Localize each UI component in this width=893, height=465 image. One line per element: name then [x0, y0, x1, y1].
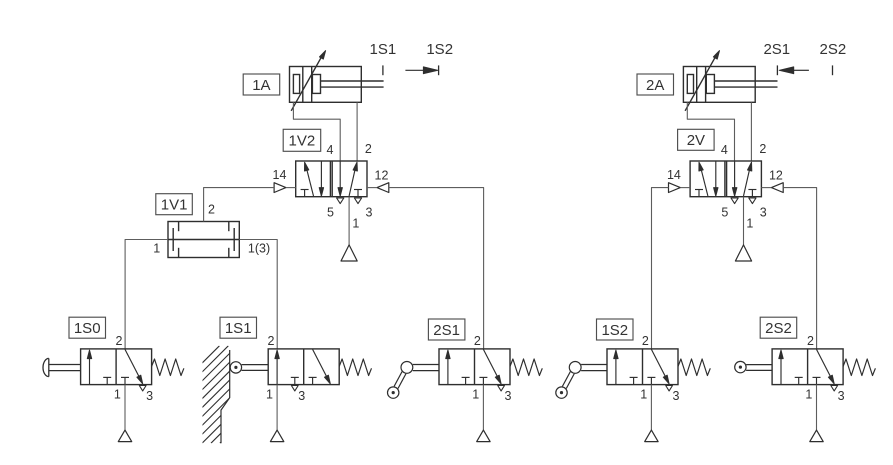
valve 1S1 (3/2): [268, 349, 339, 385]
port label 3 (1S2): [673, 389, 680, 403]
port label 2 (1V1): [208, 202, 215, 216]
roller lever actuator of 1S2: [556, 362, 607, 399]
label 1V2: [283, 129, 321, 151]
svg-text:1S2: 1S2: [601, 322, 628, 339]
pressure source at 2S2 port 1: [810, 385, 823, 442]
wire 1V1 port 2 to 1V2 pilot 14: [204, 188, 275, 222]
pilot port 14 of 1V2: [274, 183, 296, 193]
wire 1S1 port 2 to 1V1 port 1(3): [239, 240, 277, 349]
label 1S1: [220, 317, 257, 338]
port label 1 (1V2): [352, 217, 359, 231]
exhaust port 3 of 2S2: [831, 386, 838, 391]
exhaust port 3 of 1S2: [666, 386, 673, 391]
port label 3 (2S2): [838, 389, 845, 403]
return spring of 1S2: [678, 359, 710, 376]
label 2S1: [428, 319, 465, 340]
svg-text:1S0: 1S0: [74, 320, 101, 337]
roller actuator of 1S1: [230, 362, 268, 373]
pressure source at 2V port 1: [735, 197, 751, 261]
port label 2 (2S2): [807, 334, 814, 348]
svg-text:5: 5: [327, 205, 334, 219]
port label 2 (1S1): [268, 334, 275, 348]
port label 14 (2V): [667, 168, 681, 182]
wire 2A cap-end to 2V port 4: [687, 102, 734, 161]
push button actuator of 1S0: [43, 358, 81, 376]
port label 3 (1S0): [146, 389, 153, 403]
svg-text:14: 14: [273, 168, 287, 182]
svg-text:3: 3: [298, 389, 305, 403]
svg-text:14: 14: [667, 168, 681, 182]
svg-text:12: 12: [375, 168, 389, 182]
valve 2S1 (3/2): [439, 349, 510, 385]
port label 2 (2V): [759, 142, 766, 156]
valve 2S2 (3/2): [772, 349, 843, 385]
svg-text:2: 2: [208, 202, 215, 216]
port label 2 (2S1): [474, 334, 481, 348]
svg-text:1A: 1A: [252, 77, 270, 94]
svg-text:2: 2: [807, 334, 814, 348]
valve 1S2 (3/2): [607, 349, 678, 385]
pilot port 12 of 1V2: [367, 183, 389, 193]
port label 2 (1V2): [365, 142, 372, 156]
wire 1A cap-end to 1V2 port 4: [293, 102, 340, 161]
wire 2A rod-end to 2V port 2: [750, 102, 752, 161]
port label 4 (2V): [721, 143, 728, 157]
svg-text:2A: 2A: [646, 77, 664, 94]
port label 2 (1S2): [642, 334, 649, 348]
svg-text:1: 1: [805, 387, 812, 401]
two-pressure valve 1V1: [168, 222, 239, 258]
cam wall at 1S1: [122, 346, 326, 443]
svg-text:3: 3: [760, 205, 767, 219]
roller actuator of 2S2: [735, 361, 772, 372]
port label 4 (1V2): [327, 143, 334, 157]
port label 14 (1V2): [273, 168, 287, 182]
svg-text:5: 5: [721, 205, 728, 219]
port label 12 (2V): [769, 168, 783, 182]
port label 12 (1V2): [375, 168, 389, 182]
svg-text:4: 4: [327, 143, 334, 157]
label 2A: [637, 74, 674, 95]
port label 3 (2S1): [505, 389, 512, 403]
svg-text:2: 2: [474, 334, 481, 348]
svg-text:2: 2: [115, 334, 122, 348]
svg-text:2: 2: [365, 142, 372, 156]
port label 3 (1V2): [366, 205, 373, 219]
pressure source at 1V2 port 1: [341, 197, 357, 261]
exhaust port 3 of 1V2: [354, 198, 361, 204]
valve 1V2 (5/2 double pilot): [296, 161, 367, 197]
exhaust port 3 of 1S0: [139, 386, 146, 391]
svg-text:3: 3: [673, 389, 680, 403]
svg-text:1: 1: [114, 387, 121, 401]
pressure source at 2S1 port 1: [477, 385, 490, 442]
svg-text:1: 1: [352, 217, 359, 231]
port label 1 (1S1): [266, 387, 273, 401]
return spring of 1S1: [339, 359, 371, 376]
valve 2V (5/2 double pilot): [690, 161, 761, 197]
port label 1(3) (1V1): [248, 242, 270, 256]
svg-text:3: 3: [838, 389, 845, 403]
svg-text:1: 1: [153, 242, 160, 256]
svg-text:1S1: 1S1: [225, 320, 252, 337]
position marker 2S1 with motion arrow: [763, 41, 808, 75]
svg-text:1(3): 1(3): [248, 242, 270, 256]
cylinder 1A: [290, 51, 384, 111]
return spring of 2S2: [843, 359, 875, 376]
svg-text:2S2: 2S2: [765, 320, 792, 337]
pressure source at 1S0 port 1: [118, 385, 131, 442]
return spring of 1S0: [152, 359, 184, 376]
port label 5 (2V): [721, 205, 728, 219]
port label 1 (1S2): [640, 387, 647, 401]
svg-text:4: 4: [721, 143, 728, 157]
svg-text:1V1: 1V1: [161, 197, 188, 214]
exhaust port 3 of 2S1: [498, 386, 505, 391]
port label 1 (1V1): [153, 242, 160, 256]
exhaust port 5 of 2V: [731, 198, 738, 204]
wire 2S2 port 2 to 2V pilot 12: [783, 188, 816, 349]
svg-text:2S2: 2S2: [820, 41, 847, 58]
wire 1S0 port 2 to 1V1 port 1: [125, 240, 168, 349]
roller lever actuator of 2S1: [388, 362, 440, 399]
svg-text:2: 2: [759, 142, 766, 156]
pilot port 12 of 2V: [761, 183, 783, 193]
wire 1S2 port 2 to 2V pilot 14: [652, 188, 669, 349]
svg-text:2S1: 2S1: [433, 322, 460, 339]
port label 2 (1S0): [115, 334, 122, 348]
svg-text:1S1: 1S1: [370, 41, 397, 58]
label 1S2: [597, 319, 634, 340]
label 2S2: [760, 317, 797, 338]
label 1S0: [69, 317, 106, 338]
wire 1A rod-end to 1V2 port 2: [356, 102, 358, 161]
svg-text:1: 1: [266, 387, 273, 401]
label 1A: [243, 74, 280, 95]
svg-text:2: 2: [268, 334, 275, 348]
port label 1 (1S0): [114, 387, 121, 401]
position marker 1S2 with motion arrow: [405, 41, 453, 75]
svg-text:1: 1: [640, 387, 647, 401]
svg-text:1: 1: [472, 387, 479, 401]
port label 5 (1V2): [327, 205, 334, 219]
svg-text:3: 3: [505, 389, 512, 403]
svg-text:1S2: 1S2: [426, 41, 453, 58]
cylinder 2A: [683, 51, 777, 111]
label 2V: [678, 129, 715, 150]
svg-text:2S1: 2S1: [763, 41, 790, 58]
svg-text:1V2: 1V2: [289, 133, 316, 150]
pressure source at 1S2 port 1: [645, 385, 658, 442]
valve 1S0 (3/2): [81, 349, 152, 385]
position marker 2S2: [820, 41, 847, 75]
port label 1 (2S2): [805, 387, 812, 401]
port label 1 (2V): [746, 217, 753, 231]
exhaust port 5 of 1V2: [337, 198, 344, 204]
pressure source at 1S1 port 1: [270, 385, 283, 442]
label 1V1: [156, 194, 193, 215]
exhaust port 3 of 1S1: [291, 386, 298, 391]
return spring of 2S1: [510, 359, 542, 376]
svg-text:2: 2: [642, 334, 649, 348]
port label 3 (1S1): [298, 389, 305, 403]
position marker 1S1: [370, 41, 397, 75]
wire 2S1 port 2 to 1V2 pilot 12: [389, 188, 484, 349]
port label 1 (2S1): [472, 387, 479, 401]
svg-text:3: 3: [146, 389, 153, 403]
svg-text:3: 3: [366, 205, 373, 219]
svg-text:12: 12: [769, 168, 783, 182]
svg-text:1: 1: [746, 217, 753, 231]
svg-text:2V: 2V: [687, 132, 705, 149]
pilot port 14 of 2V: [669, 183, 691, 193]
exhaust port 3 of 2V: [749, 198, 756, 204]
port label 3 (2V): [760, 205, 767, 219]
